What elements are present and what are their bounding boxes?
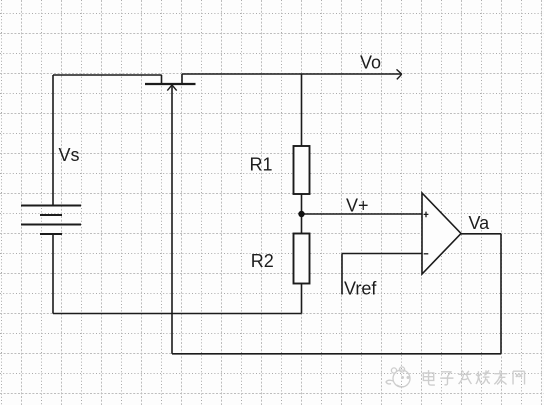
wire feedback vertical	[500, 234, 502, 354]
resistor R1	[294, 146, 310, 194]
wire op-amp output	[461, 233, 501, 235]
battery Vs	[21, 206, 81, 235]
node V+ junction dot	[298, 211, 304, 217]
svg-text:V+: V+	[346, 195, 369, 215]
wire V+ (node to op-amp +)	[302, 213, 422, 215]
watermark text (电子发烧友网 approximated)	[423, 370, 524, 385]
svg-text:Vref: Vref	[344, 279, 377, 299]
watermark logo	[386, 367, 410, 387]
transistor Q1	[145, 74, 196, 91]
wire op-amp minus input	[342, 253, 422, 255]
svg-text:Vo: Vo	[360, 53, 381, 73]
resistor R2	[294, 234, 310, 284]
wire bottom feedback rail	[172, 353, 501, 355]
wire top-left (Vs top to Q1 emitter)	[53, 74, 162, 76]
wire Vref lead	[341, 254, 343, 295]
svg-text:Vs: Vs	[59, 145, 80, 165]
wire battery top lead	[52, 75, 54, 206]
svg-text:Va: Va	[469, 213, 491, 233]
wire battery bottom lead	[52, 234, 54, 314]
wire R1 to R2	[301, 194, 303, 234]
wire top rail to Vo	[182, 73, 402, 75]
wire Vo arrowhead	[397, 69, 402, 79]
svg-text:R1: R1	[250, 155, 273, 175]
svg-text:R2: R2	[251, 251, 274, 271]
wire base lead down	[171, 87, 173, 354]
wire bottom rail	[53, 313, 302, 315]
op-amp U1	[422, 193, 461, 274]
wire R1 top lead	[301, 74, 303, 146]
wire R2 bottom lead	[301, 284, 303, 314]
